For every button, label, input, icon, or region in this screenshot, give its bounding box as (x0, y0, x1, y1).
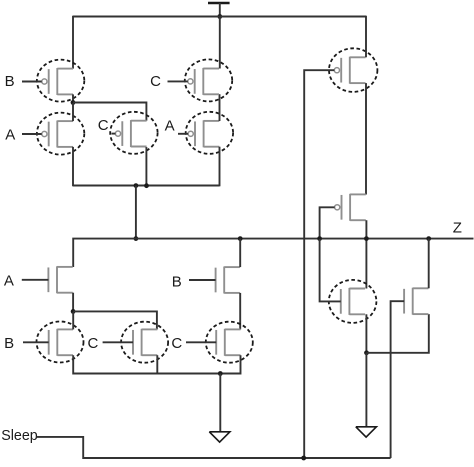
node P7/N6 gate on Z (317, 236, 322, 241)
wire N7 gate down to sleep line (391, 301, 405, 458)
wire Sleep line (37, 437, 391, 458)
transistor P7 (keeper PMOS, mid right) (335, 194, 366, 221)
svg-text:B: B (172, 273, 182, 290)
wire N2 drain up to Z (239, 239, 241, 268)
power rail VDD symbol (208, 3, 230, 17)
transistor N7 (sleep NMOS, right) (404, 288, 428, 315)
wire gate lead C to N4 (103, 341, 133, 343)
sleep-style dashed circle around P1 (37, 60, 84, 102)
transistor N6 (keeper NMOS, dashed) (341, 288, 365, 315)
wire output node Z (73, 239, 473, 267)
node sleep PMOS gate tap (301, 456, 306, 461)
wire gate lead C to P5 (168, 80, 188, 82)
wire gate lead B to N3 (23, 341, 49, 343)
wire NMOS network bottom (73, 355, 240, 373)
dashed circle around N6 (329, 280, 377, 323)
wire gate lead C to N5 (186, 341, 216, 343)
wire gate lead B to N2 (189, 279, 216, 281)
wire P4 source down (219, 147, 221, 187)
wire gate lead A to N1 (22, 279, 49, 281)
svg-text:B: B (5, 73, 15, 90)
node P7 source on Z (364, 236, 369, 241)
svg-text:Sleep: Sleep (1, 428, 38, 444)
svg-text:A: A (5, 127, 15, 144)
transistor P3 (input C, PMOS, middle) (115, 120, 146, 147)
wire P6 gate to sleep line (304, 70, 334, 458)
wire N4 source down (156, 355, 158, 374)
wire down to ground (219, 374, 221, 432)
dashed circle around N5 (206, 322, 253, 363)
wire P4 drain up to P5 source (219, 94, 221, 121)
wire N3 drain up to node (72, 312, 74, 330)
ground symbol left (209, 432, 230, 442)
dashed circle around P5 (185, 59, 232, 101)
wire gate lead A to P2 (22, 133, 42, 135)
transistor N4 (input C, NMOS, dashed) (133, 329, 157, 356)
node P3 source on bottom wire (144, 183, 149, 188)
svg-text:C: C (88, 335, 99, 352)
node N7 drain on Z (426, 236, 431, 241)
dashed circle around N3 (37, 322, 84, 363)
transistor P1 (input B, PMOS) (42, 68, 73, 95)
wire gate lead B to P1 (22, 81, 42, 83)
transistor P6 (sleep PMOS, top right) (334, 57, 365, 84)
wire P1 source down to node (72, 94, 74, 102)
node ground junction (218, 371, 223, 376)
svg-text:C: C (171, 335, 182, 352)
wire P2 source down (72, 147, 74, 186)
node N2 drain on Z (238, 236, 243, 241)
dashed circle around P4 (186, 112, 233, 154)
node on output wire (134, 236, 139, 241)
wire node across to P3 drain (73, 103, 146, 121)
node pull-up output junction (134, 183, 139, 188)
wire gate lead A to P4 (178, 133, 188, 135)
wire N2 source down to N5 drain (239, 293, 241, 330)
svg-text:B: B (4, 335, 14, 352)
dashed circle around P2 (37, 113, 84, 155)
svg-text:Z: Z (453, 219, 462, 236)
ground symbol right (356, 427, 377, 437)
wire N1 source down to node (72, 293, 74, 312)
wire N6 node down to ground (365, 353, 367, 427)
wire PMOS network bottom (73, 185, 220, 187)
node N6/N7 source junction (364, 350, 369, 355)
svg-text:A: A (165, 118, 175, 135)
transistor N3 (input B, NMOS, dashed) (49, 329, 73, 356)
wire pull-up to output node (135, 186, 137, 239)
wire P2 drain up to node (72, 103, 74, 121)
transistor P5 (input C, PMOS, top right of group) (188, 68, 219, 95)
wire P7 source crossing output to N6 drain (365, 220, 367, 288)
wire P5 drain up to VDD (219, 17, 221, 69)
wire top VDD rail (73, 16, 366, 18)
dashed circle around N4 (121, 322, 168, 363)
transistor P4 (input A, PMOS, right) (188, 120, 219, 147)
transistor N1 (input A, NMOS) (48, 266, 72, 293)
node N1/N3 junction (71, 309, 76, 314)
wire N6 gate from Z (320, 239, 341, 301)
wire N6 source down to node (365, 314, 367, 353)
svg-text:C: C (150, 73, 161, 90)
wire P7 gate to output (320, 207, 335, 238)
dashed circle around P3 (110, 112, 157, 154)
wire node across to N4 drain (73, 311, 157, 329)
wire N7 drain up to Z (428, 239, 430, 289)
svg-text:A: A (4, 272, 14, 289)
wire VDD rail corner down to P6 drain (365, 16, 367, 58)
wire gate lead C to P3 (112, 133, 116, 135)
wire P6 source down to P7 drain (365, 83, 367, 194)
transistor N2 (input B, NMOS) (216, 267, 240, 294)
svg-text:C: C (98, 117, 109, 134)
transistor N5 (input C, NMOS, dashed) (216, 329, 240, 356)
node P1/P2/P3 junction (71, 100, 76, 105)
wire P3 source down to bottom wire (145, 147, 147, 185)
node VDD rail junction (217, 14, 222, 19)
wire source join to N7 (367, 314, 429, 353)
dashed circle around P6 (329, 48, 377, 92)
transistor P2 (input A, PMOS) (42, 121, 73, 148)
wire left rail to P1 drain (72, 16, 74, 69)
